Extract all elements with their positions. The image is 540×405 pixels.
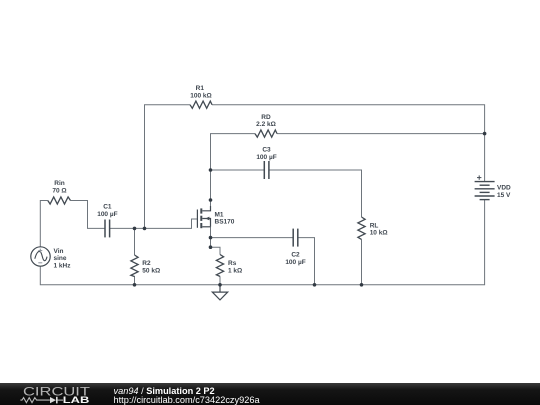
wire: RL bottom: [361, 239, 363, 284]
label Rs: [228, 260, 242, 274]
label C1: [97, 204, 117, 218]
wire: Rs bottom: [219, 276, 221, 285]
resistor RL: [358, 217, 365, 239]
wire: R2 branch: [134, 228, 136, 255]
svg-text:R1: R1: [196, 85, 205, 92]
svg-text:LAB: LAB: [63, 395, 90, 405]
svg-text:2.2 kΩ: 2.2 kΩ: [256, 121, 276, 128]
svg-text:Vin: Vin: [54, 248, 64, 255]
ground: [212, 285, 227, 300]
wire: C2 right down to rail: [298, 238, 315, 285]
svg-text:70 Ω: 70 Ω: [52, 187, 66, 194]
label RD: [256, 114, 276, 128]
svg-text:1 kHz: 1 kHz: [54, 262, 72, 269]
resistor Rin: [48, 197, 71, 204]
label Vin: [54, 248, 72, 270]
svg-text:Rin: Rin: [54, 180, 65, 187]
wire: top net left vertical (R1 to gate node): [145, 105, 191, 229]
capacitor C1: [105, 220, 110, 238]
svg-text:100 µF: 100 µF: [285, 259, 305, 266]
label C3: [256, 147, 276, 161]
wire: Vin top to Rin: [40, 201, 48, 247]
svg-text:C2: C2: [291, 252, 300, 259]
label RL: [370, 222, 388, 236]
svg-text:sine: sine: [54, 255, 67, 262]
label VDD: [497, 185, 511, 199]
svg-text:100 µF: 100 µF: [97, 211, 117, 218]
resistor RD: [255, 130, 277, 137]
svg-text:RL: RL: [370, 222, 379, 229]
resistor R2: [131, 255, 138, 277]
wire: bottom rail: [40, 200, 484, 285]
wire: source to C2: [211, 227, 221, 255]
svg-text:100 kΩ: 100 kΩ: [190, 92, 211, 99]
capacitor C2: [293, 229, 298, 247]
label R1: [190, 85, 211, 99]
battery VDD: [475, 182, 495, 200]
svg-text:1 kΩ: 1 kΩ: [228, 267, 242, 274]
wire: C1 to gate node and jog up to gate: [110, 219, 198, 228]
resistor Rs: [216, 255, 223, 277]
wire: R2 bottom: [134, 276, 136, 285]
label Rin: [52, 180, 66, 194]
wire: C3 net right to RL: [269, 170, 362, 217]
label M1: [215, 211, 235, 225]
svg-text:15 V: 15 V: [497, 192, 511, 199]
logo resistor squiggle: [20, 398, 50, 403]
svg-text:BS170: BS170: [215, 219, 235, 226]
svg-text:C3: C3: [262, 147, 271, 154]
wire: R1 right to battery column: [212, 105, 485, 182]
source Vin polarity marks: [38, 249, 42, 263]
wire: RD net: [277, 133, 485, 135]
transistor M1 arrow: [205, 217, 209, 221]
source Vin: [31, 247, 50, 266]
wire: RD left vertical to drain: [211, 134, 256, 206]
capacitor C3: [264, 161, 269, 179]
footer bar: [0, 383, 540, 405]
resistor R1: [190, 101, 212, 108]
wire: C2 net: [211, 237, 294, 239]
transistor M1 (NMOS BS170): [197, 206, 210, 228]
svg-text:100 µF: 100 µF: [256, 154, 276, 161]
svg-text:RD: RD: [261, 114, 271, 121]
svg-text:C1: C1: [103, 204, 112, 211]
svg-text:Rs: Rs: [228, 260, 237, 267]
label R2: [142, 260, 160, 274]
svg-text:R2: R2: [142, 260, 151, 267]
svg-text:50 kΩ: 50 kΩ: [142, 267, 160, 274]
svg-text:10 kΩ: 10 kΩ: [370, 230, 388, 237]
svg-text:VDD: VDD: [497, 185, 511, 192]
svg-text:M1: M1: [215, 211, 224, 218]
battery plus sign: [477, 175, 481, 179]
logo diode: [50, 397, 56, 403]
wire: C3 net left: [211, 169, 265, 171]
label C2: [285, 252, 305, 266]
wire: Rin to C1: [71, 201, 106, 229]
